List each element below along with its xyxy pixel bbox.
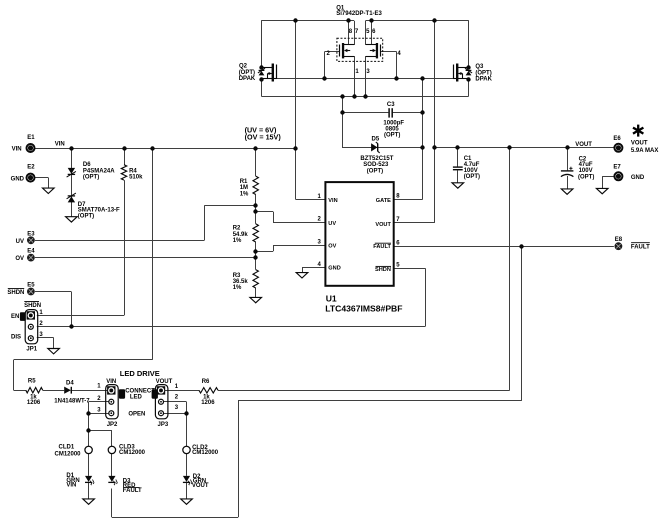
CLD2 current limiting diode — [183, 446, 190, 453]
terminal E5 SHDN — [27, 288, 35, 296]
node JP3 pins 2-3 — [184, 411, 188, 415]
svg-text:R3: R3 — [233, 273, 241, 279]
jumper shunt on JP2 — [119, 389, 125, 398]
resistor R1 1M — [253, 176, 258, 194]
wire SHDN drop — [425, 268, 427, 326]
ground below D7 — [66, 217, 78, 222]
wire E7 ground drop — [602, 176, 604, 188]
wire D5 branch — [342, 147, 423, 149]
wire CLD3 top stub — [111, 430, 113, 446]
node VOUT rail / C1 — [455, 145, 459, 149]
wire VOUT vertical (top rail to U1 pin 7) — [434, 21, 436, 223]
wire U1 pin 2 lead — [273, 222, 325, 224]
IC U1 LTC4367 body — [325, 182, 393, 286]
wire OV from E4 — [35, 257, 256, 259]
node top rail / VIN vertical — [293, 18, 297, 22]
svg-text:JP3: JP3 — [158, 422, 169, 428]
svg-text:E5: E5 — [27, 282, 35, 288]
wire VIN feed left drop — [13, 360, 15, 390]
ground at E7 — [596, 188, 608, 193]
svg-text:GATE: GATE — [376, 198, 391, 204]
wire JP2 pins 2/3 drop to CLD1 — [88, 402, 90, 446]
resistor R3 36.5k — [253, 270, 258, 288]
svg-text:D4: D4 — [66, 380, 74, 386]
svg-text:CM12000: CM12000 — [55, 452, 82, 458]
wire top rail VOUT-drain side — [366, 20, 469, 22]
svg-text:1%: 1% — [240, 191, 249, 197]
node top rail / Q1 pin 6 — [369, 18, 373, 22]
wire common source rail — [262, 96, 469, 98]
svg-text:SOD-523: SOD-523 — [363, 162, 389, 168]
ground below D2 — [181, 499, 193, 504]
svg-text:VIN: VIN — [328, 198, 337, 204]
wire FAULT jog drop — [238, 401, 240, 517]
ground at JP1 pin 3 — [48, 349, 60, 354]
LED D1 green VIN — [85, 476, 94, 486]
svg-text:UV: UV — [16, 239, 24, 245]
svg-text:(OPT): (OPT) — [578, 175, 594, 181]
node R1-R2 / UV in — [253, 203, 257, 207]
wire right box edge lower (Q3 source) — [468, 79, 470, 97]
node Q3 source — [466, 77, 470, 81]
wire FAULT drop — [521, 246, 523, 401]
svg-text:DPAK: DPAK — [475, 76, 492, 82]
wire VIN vertical (top rail to U1 pin 1) — [295, 21, 297, 200]
wire UV from E3 — [35, 240, 204, 242]
svg-text:E4: E4 — [27, 249, 35, 255]
node VIN rail / feed — [150, 146, 154, 150]
wire R3 bottom stub — [255, 288, 257, 297]
wire E7 to ground — [602, 176, 614, 178]
svg-text:VOUT: VOUT — [156, 379, 173, 385]
wire Q1 pin 6 lead — [371, 21, 373, 45]
svg-text:1M: 1M — [240, 185, 248, 191]
svg-text:CM12000: CM12000 — [192, 450, 219, 456]
svg-text:DIS: DIS — [11, 335, 21, 341]
transistor Q1 right FET (pins 5/6 drain, 4 gate, 3 source) — [366, 43, 381, 58]
wire OV tap to U1 pin 3 jog — [256, 251, 273, 253]
wire UV to divider — [204, 205, 255, 207]
wire FAULT bottom return — [112, 517, 238, 519]
terminal E6 VOUT — [614, 144, 622, 152]
wire U1 pin 8 GATE lead — [394, 199, 423, 201]
svg-text:FAULT: FAULT — [123, 488, 142, 494]
node Q2 source — [259, 77, 263, 81]
node VIN rail / R1 — [253, 146, 257, 150]
ground below C1 — [452, 183, 464, 188]
wire R5 left stub — [14, 390, 26, 392]
svg-text:LTC4367IMS8#PBF: LTC4367IMS8#PBF — [325, 304, 402, 314]
node R2-R3 / OV in — [253, 255, 257, 259]
wire JP1 pin 3 lead — [37, 337, 54, 339]
svg-text:GND: GND — [11, 176, 25, 182]
wire Q1 pin 4 drop to gate rail — [396, 52, 398, 79]
node CLD1/CLD3 branch — [86, 428, 90, 432]
ground below D1 — [83, 499, 95, 504]
wire pin 3 jog rise — [273, 245, 275, 251]
wire JP3 pin 1 to R6 — [161, 390, 199, 392]
node FAULT line / drop — [519, 244, 523, 248]
svg-text:LED DRIVE: LED DRIVE — [120, 369, 160, 378]
svg-text:36.5k: 36.5k — [233, 279, 249, 285]
svg-text:1%: 1% — [233, 238, 242, 244]
resistor R4 510k — [121, 165, 126, 180]
wire U1 pin 5 SHDN lead — [394, 268, 426, 270]
wire FAULT jog horizontal — [238, 400, 521, 402]
wire U1 pin 3 lead — [273, 245, 325, 247]
wire Q1 pin 2 drop to gate rail — [324, 52, 326, 79]
wire R1 top stub — [255, 148, 257, 176]
wire pin 2 jog drop — [273, 212, 275, 223]
svg-text:JP2: JP2 — [107, 422, 118, 428]
wire D2 to ground — [186, 483, 188, 499]
svg-text:Q2: Q2 — [239, 63, 248, 69]
LED D3 red FAULT — [108, 476, 117, 486]
overline JP1 SHDN — [24, 301, 39, 303]
wire JP3 pin 3 lead — [161, 413, 187, 415]
wire E5 SHDN — [35, 291, 71, 293]
svg-text:(OV = 15V): (OV = 15V) — [245, 133, 282, 142]
svg-text:OPEN: OPEN — [128, 412, 145, 418]
terminal E8 FAULT — [615, 242, 623, 250]
wire Q1 pin 1 lead to source rail — [354, 56, 356, 96]
svg-text:C3: C3 — [387, 102, 395, 108]
svg-text:0805: 0805 — [385, 126, 399, 132]
wire VOUT riser — [509, 148, 511, 390]
svg-text:E2: E2 — [27, 165, 35, 171]
diode D5 zener BZT52C15T — [371, 143, 377, 151]
wire VIN feed horizontal — [14, 359, 153, 361]
wire C1 top stub — [457, 148, 459, 167]
svg-text:SHDN: SHDN — [7, 290, 24, 296]
overline D3 FAULT — [123, 487, 140, 489]
svg-text:UV: UV — [328, 221, 336, 227]
wire SHDN rail to JP1 pin 2 — [37, 326, 425, 328]
wire left box edge upper (Q2 drain) — [261, 20, 263, 67]
svg-text:OV: OV — [328, 244, 336, 250]
wire GATE vertical — [422, 79, 424, 200]
wire C1 bottom stub — [457, 170, 459, 183]
svg-text:1N4148WT-7: 1N4148WT-7 — [54, 399, 90, 405]
node top rail / Q1 pin 8 — [346, 18, 350, 22]
terminal E2 GND — [27, 174, 35, 182]
wire JP2 pin 2 lead — [89, 401, 112, 403]
connector JP3 (VOUT LED) — [155, 385, 168, 419]
svg-text:100V: 100V — [579, 168, 593, 174]
terminal E7 GND — [614, 172, 622, 180]
svg-text:R1: R1 — [240, 179, 248, 185]
wire R1-R2 node — [255, 195, 257, 224]
node source rail / pin 3 — [363, 94, 367, 98]
svg-text:Si7942DP-T1-E3: Si7942DP-T1-E3 — [336, 11, 382, 17]
svg-text:54.9k: 54.9k — [233, 232, 249, 238]
wire D4 to JP2 pin 1 — [72, 390, 109, 392]
jumper shunt on JP1 — [20, 312, 26, 321]
svg-text:5.9A MAX: 5.9A MAX — [631, 148, 658, 154]
transistor Q1 left FET (pins 8/7 drain, 2 gate, 1 source) — [340, 43, 355, 58]
node R2-R3 / pin 3 jog — [253, 249, 257, 253]
wire JP2 pin 3 lead — [89, 413, 112, 415]
svg-text:1000pF: 1000pF — [383, 120, 404, 126]
svg-text:DPAK: DPAK — [239, 76, 256, 82]
svg-text:R2: R2 — [233, 226, 241, 232]
wire UV tap to U1 pin 2 jog — [256, 211, 273, 213]
node Q3 drain — [466, 65, 470, 69]
resistor R5 1k — [26, 388, 43, 393]
wire E2 ground drop — [48, 178, 50, 189]
svg-text:R5: R5 — [28, 378, 36, 384]
node C3 left — [340, 110, 344, 114]
diode D7 TVS SMAT70A — [68, 196, 75, 202]
wire C3 left — [342, 112, 388, 114]
svg-text:VIN: VIN — [12, 147, 22, 153]
wire VIN rail — [35, 148, 296, 150]
overline FAULT pin name — [375, 242, 391, 244]
wire gate rail — [277, 78, 453, 80]
wire R6 to VOUT riser — [218, 390, 510, 392]
svg-text:D5: D5 — [372, 137, 380, 143]
node VOUT rail start — [432, 145, 436, 149]
wire R4 top stub — [124, 148, 126, 165]
svg-text:CM12000: CM12000 — [119, 450, 146, 456]
wire top rail VIN-drain side — [262, 20, 355, 22]
wire D6/D7 branch — [71, 148, 73, 217]
diode D6 TVS P4SMA24A — [68, 168, 75, 174]
svg-text:SHDN: SHDN — [375, 267, 391, 273]
svg-text:VIN: VIN — [106, 379, 116, 385]
resistor R2 54.9k — [253, 224, 258, 242]
svg-text:E8: E8 — [615, 237, 623, 243]
wire UV jog up — [204, 205, 206, 240]
svg-text:E7: E7 — [613, 165, 621, 171]
capacitor C3 plates — [388, 108, 390, 117]
node VOUT rail / R6 riser — [507, 145, 511, 149]
connector JP1 (EN/DIS) — [25, 310, 38, 344]
capacitor C2 plates (polarized) — [561, 170, 574, 172]
jumper shunt on JP3 — [152, 389, 158, 398]
wire E5 jog down — [71, 292, 73, 327]
connector JP2 (VIN LED) — [106, 385, 119, 419]
wire JP1 pin 3 ground drop — [53, 338, 55, 349]
svg-text:(OPT): (OPT) — [83, 174, 99, 180]
node Q2 drain — [259, 65, 263, 69]
wire right box edge upper (Q3 drain) — [468, 20, 470, 67]
capacitor C1 plates — [453, 166, 463, 168]
svg-text:100V: 100V — [464, 168, 478, 174]
wire U1 pin 7 lead — [394, 222, 435, 224]
diode D4 1N4148WT-7 — [64, 387, 71, 394]
node D5 right — [420, 145, 424, 149]
svg-text:VOUT: VOUT — [375, 222, 391, 228]
transistor Q2 (OPT DPAK) — [258, 64, 277, 82]
ground below C2 — [561, 189, 573, 194]
wire FAULT line to E8 — [394, 246, 614, 248]
svg-text:GND: GND — [631, 175, 645, 181]
svg-text:R6: R6 — [202, 379, 210, 385]
svg-text:(OPT): (OPT) — [384, 133, 400, 139]
svg-text:D6: D6 — [83, 162, 91, 168]
node source rail / C3 branch — [340, 94, 344, 98]
svg-text:OV: OV — [15, 256, 24, 262]
svg-text:VOUT: VOUT — [631, 141, 648, 147]
svg-text:Q3: Q3 — [475, 64, 484, 70]
node R1-R2 / pin 2 jog — [253, 209, 257, 213]
wire branch to CLD3 — [89, 430, 112, 432]
svg-text:E3: E3 — [27, 231, 35, 237]
svg-text:510k: 510k — [129, 174, 143, 180]
node gate rail / GATE vertical — [420, 76, 424, 80]
asterisk note marker — [637, 125, 639, 137]
svg-text:GND: GND — [328, 266, 340, 272]
terminal E1 VIN — [27, 144, 35, 152]
wire C2 bottom stub — [567, 176, 569, 189]
svg-text:FAULT: FAULT — [631, 244, 650, 250]
overline SHDN pin name — [376, 265, 392, 267]
svg-text:U1: U1 — [326, 293, 337, 303]
svg-text:FAULT: FAULT — [373, 244, 391, 250]
wire source node drop to C3/D5 — [342, 96, 344, 147]
wire R4 bottom to JP1 pin 1 row — [124, 180, 126, 315]
wire Q1 pin 2 gate lead — [325, 51, 340, 53]
terminal E3 UV — [27, 236, 35, 244]
wire JP3 pins 2/3 drop to CLD2 — [186, 402, 188, 446]
svg-text:BZT52C15T: BZT52C15T — [360, 156, 393, 162]
wire left box edge lower (Q2 source) — [261, 79, 263, 97]
wire CLD2 to D2 — [186, 454, 188, 476]
wire U1 pin 1 lead — [296, 199, 326, 201]
overline FAULT terminal — [631, 242, 650, 244]
LED D2 green VOUT — [183, 476, 192, 486]
wire R5 to D4 — [43, 390, 64, 392]
svg-text:VOUT: VOUT — [192, 483, 209, 489]
svg-text:VIN: VIN — [66, 483, 76, 489]
svg-text:JP1: JP1 — [26, 347, 37, 353]
wire Q1 pin 5 lead — [365, 21, 367, 45]
wire VOUT rail — [435, 147, 614, 149]
svg-text:EN: EN — [11, 314, 19, 320]
wire D3 cathode drop — [111, 489, 113, 518]
node top rail / VOUT vertical — [432, 18, 436, 22]
node JP2 pins 2-3 — [86, 411, 90, 415]
wire Q1 pin 3 lead to source rail — [365, 56, 367, 96]
wire E2 to ground — [35, 177, 48, 179]
transistor Q1 dashed package outline — [337, 38, 383, 61]
wire Q1 pin 4 gate lead — [380, 51, 396, 53]
svg-text:E6: E6 — [613, 136, 621, 142]
wire U1 pin 4 GND lead — [302, 267, 325, 269]
svg-text:VOUT: VOUT — [575, 142, 592, 148]
node C3 right — [420, 110, 424, 114]
wire R2-R3 node — [255, 242, 257, 270]
svg-text:(OPT): (OPT) — [464, 174, 480, 180]
svg-text:SHDN: SHDN — [24, 303, 41, 309]
node VIN rail / D6 — [69, 146, 73, 150]
svg-text:CLD1: CLD1 — [59, 445, 75, 451]
resistor R6 1k — [199, 388, 218, 393]
node VIN rail / VIN vertical — [293, 146, 297, 150]
wire D1 to ground — [88, 483, 90, 499]
svg-text:1%: 1% — [233, 285, 242, 291]
svg-text:1206: 1206 — [27, 400, 41, 406]
svg-text:(OPT): (OPT) — [367, 168, 383, 174]
terminal E4 OV — [27, 254, 35, 262]
svg-text:LED: LED — [130, 394, 143, 400]
CLD3 current limiting diode — [108, 446, 115, 453]
ground at E2 — [43, 188, 55, 193]
svg-text:1206: 1206 — [201, 400, 215, 406]
wire JP1 pin 1 row to R4 — [37, 315, 124, 317]
node VIN rail / R4 — [122, 146, 126, 150]
wire pin 4 ground stub — [302, 268, 304, 273]
ground below R3 — [250, 297, 262, 302]
wire CLD3 to D3 — [111, 454, 113, 477]
node source rail / pin 1 — [352, 94, 356, 98]
wire C3 right — [393, 112, 423, 114]
svg-text:C1: C1 — [464, 156, 472, 162]
transistor Q3 (OPT DPAK) — [453, 64, 472, 82]
wire Q1 pin 7 lead — [354, 21, 356, 45]
wire C2 top stub — [567, 148, 569, 171]
wire Q1 pin 8 lead — [348, 21, 350, 45]
CLD1 current limiting diode — [85, 446, 92, 453]
wire CLD1 to D1 — [88, 454, 90, 476]
ground at U1 pin 4 — [296, 273, 308, 278]
svg-text:(OPT): (OPT) — [78, 213, 94, 219]
overline SHDN terminal — [8, 288, 24, 290]
node VOUT rail / C2 — [565, 145, 569, 149]
node gate rail / pin 2 — [322, 76, 326, 80]
svg-text:E1: E1 — [27, 135, 35, 141]
svg-text:VIN: VIN — [55, 142, 65, 148]
wire VIN feed down to LED drive — [152, 148, 154, 360]
node SHDN rail / E5 — [69, 324, 73, 328]
node gate rail / pin 4 — [394, 76, 398, 80]
wire JP3 pin 2 lead — [161, 401, 187, 403]
